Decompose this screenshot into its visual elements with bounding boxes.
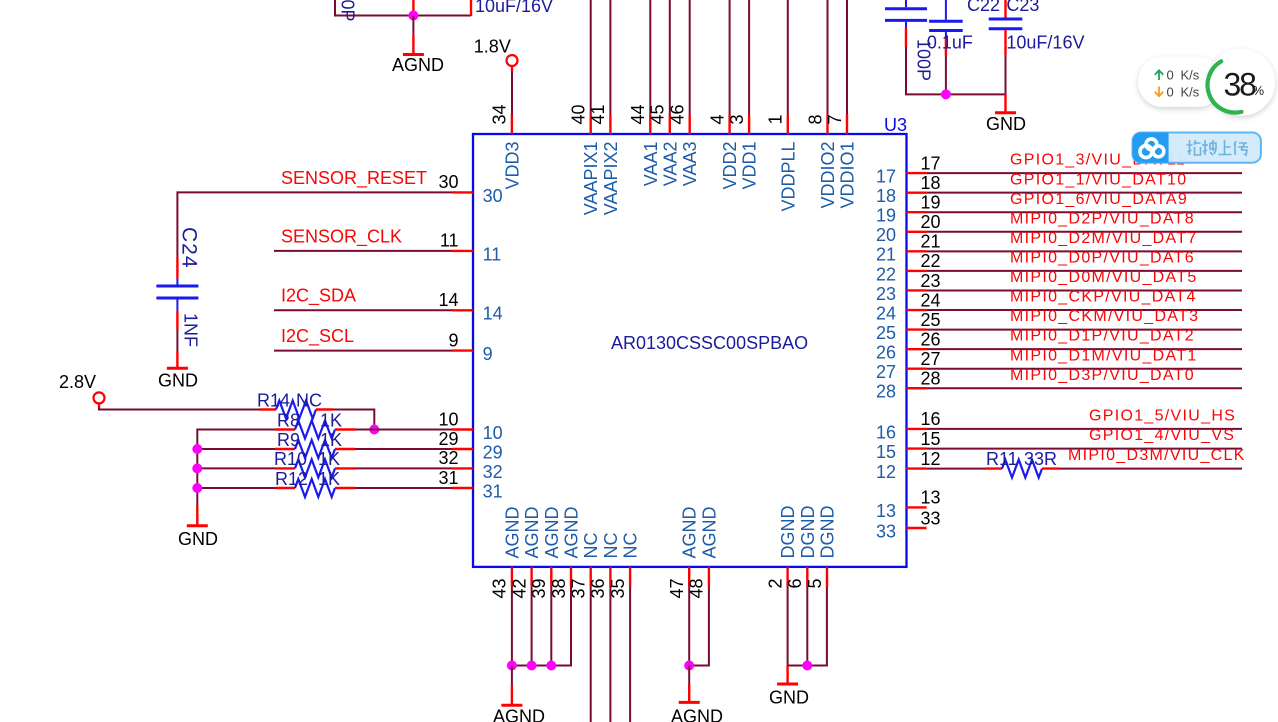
wire	[511, 66, 513, 73]
pin 30 (left)	[452, 191, 473, 193]
power port 1.8V	[474, 36, 511, 56]
svg-text:AGND: AGND	[699, 506, 719, 558]
wire	[531, 587, 533, 666]
svg-text:32: 32	[438, 448, 458, 468]
svg-text:30: 30	[483, 186, 503, 206]
svg-text:GPIO1_1/VIU_DAT10: GPIO1_1/VIU_DAT10	[1010, 171, 1187, 188]
pin 13 (right)	[907, 506, 927, 508]
net MIPI0_D0M/VIU_DAT5 wire	[927, 289, 1242, 291]
value 10uF/16V	[1006, 33, 1084, 53]
pin 25 (right)	[907, 328, 927, 330]
svg-text:1K: 1K	[318, 449, 340, 469]
pin 27 (right)	[907, 368, 927, 370]
svg-text:23: 23	[876, 284, 896, 304]
wire	[787, 0, 789, 115]
capacitor lead (top-left 10uF/16V)	[470, 0, 472, 16]
svg-text:AGND: AGND	[680, 506, 700, 558]
svg-text:DGND: DGND	[818, 506, 838, 559]
wire	[827, 0, 829, 115]
svg-text:0: 0	[1167, 68, 1174, 83]
svg-text:32: 32	[483, 462, 503, 482]
svg-text:22: 22	[876, 264, 896, 284]
svg-text:%: %	[1253, 83, 1265, 98]
svg-text:VAA3: VAA3	[680, 142, 700, 187]
svg-text:28: 28	[921, 369, 941, 389]
svg-text:AR0130CSSC00SPBAO: AR0130CSSC00SPBAO	[611, 333, 808, 353]
svg-text:41: 41	[588, 104, 608, 124]
wire	[512, 587, 571, 666]
svg-text:GND: GND	[178, 529, 218, 549]
wire	[98, 403, 100, 408]
net MIPI0_D0P/VIU_DAT6 wire	[927, 270, 1242, 272]
designator U3	[884, 115, 907, 135]
svg-text:45: 45	[648, 104, 668, 124]
svg-text:31: 31	[438, 468, 458, 488]
net MIPI0_CKM/VIU_DAT3 wire	[927, 329, 1242, 331]
capacitor lead (top-left 100P)	[412, 0, 414, 16]
pin 3 VDD1 (top)	[748, 115, 750, 135]
svg-text:VDDPLL: VDDPLL	[778, 142, 798, 212]
wire	[927, 468, 985, 470]
wire	[511, 666, 513, 686]
svg-text:34: 34	[490, 104, 510, 124]
svg-text:GND: GND	[769, 688, 809, 708]
svg-text:29: 29	[483, 442, 503, 462]
wire	[197, 448, 275, 450]
svg-text:NC: NC	[601, 533, 621, 559]
svg-text:18: 18	[921, 173, 941, 193]
wire	[649, 0, 651, 115]
svg-text:1K: 1K	[320, 410, 342, 430]
pin 5 DGND (bottom)	[826, 567, 828, 587]
svg-text:4: 4	[707, 114, 727, 124]
wire	[197, 487, 275, 489]
ground AGND (bottom-middle)	[688, 685, 690, 702]
pin 40 VAAPIX1 (top)	[590, 115, 592, 135]
junction	[802, 661, 812, 671]
svg-text:MIPI0_D2P/VIU_DAT8: MIPI0_D2P/VIU_DAT8	[1010, 210, 1195, 227]
resistor R12 1K	[275, 487, 295, 489]
svg-text:9: 9	[483, 344, 493, 364]
svg-text:14: 14	[438, 290, 458, 310]
svg-text:33: 33	[876, 521, 896, 541]
resistor R10 1K	[275, 467, 295, 469]
svg-text:MIPI0_CKP/VIU_DAT4: MIPI0_CKP/VIU_DAT4	[1010, 289, 1197, 306]
overlay speed pill	[1138, 57, 1223, 108]
wire	[590, 587, 592, 722]
net GPIO1_4/VIU_VS wire	[927, 448, 1242, 450]
wire	[355, 487, 452, 489]
svg-text:21: 21	[921, 232, 941, 252]
wire	[688, 666, 690, 686]
net label MIPI0_D2M/VIU_DAT7	[1010, 230, 1198, 247]
pin 2 DGND (bottom)	[786, 567, 788, 587]
junction	[527, 661, 537, 671]
pin 41 VAAPIX2 (top)	[609, 115, 611, 135]
svg-text:AGND: AGND	[392, 55, 444, 75]
wire	[1059, 468, 1242, 470]
svg-text:23: 23	[921, 271, 941, 291]
svg-text:38: 38	[1224, 66, 1257, 102]
svg-text:AGND: AGND	[502, 506, 522, 558]
pin 28 (right)	[907, 387, 927, 389]
svg-text:21: 21	[876, 245, 896, 265]
svg-text:33: 33	[921, 508, 941, 528]
svg-text:25: 25	[921, 310, 941, 330]
ground GND (under C24)	[176, 352, 178, 368]
net label SENSOR_CLK	[281, 226, 402, 247]
svg-text:C22: C22	[967, 0, 1000, 15]
svg-text:I2C_SCL: I2C_SCL	[281, 326, 354, 347]
wire	[197, 467, 275, 469]
svg-text:1NF: 1NF	[181, 313, 201, 347]
wire	[729, 0, 731, 115]
ground GND (left bus)	[196, 506, 198, 525]
pin 14 (left)	[452, 309, 473, 311]
pin 31 (left)	[452, 487, 473, 489]
pin 16 (right)	[907, 428, 927, 430]
junction	[192, 463, 202, 473]
ground GND (top-right)	[1004, 94, 1006, 111]
svg-text:GND: GND	[158, 370, 198, 390]
svg-text:11: 11	[440, 231, 459, 251]
svg-text:8: 8	[805, 114, 825, 124]
svg-text:MIPI0_D0M/VIU_DAT5: MIPI0_D0M/VIU_DAT5	[1010, 269, 1198, 286]
net label MIPI0_CKP/VIU_DAT4	[1010, 289, 1197, 306]
svg-text:AGND: AGND	[542, 506, 562, 558]
svg-text:16: 16	[921, 409, 941, 429]
svg-text:VAA1: VAA1	[641, 142, 661, 187]
svg-text:U3: U3	[884, 115, 907, 135]
svg-text:10: 10	[438, 409, 458, 429]
pin 6 DGND (bottom)	[806, 567, 808, 587]
wire	[688, 587, 690, 666]
svg-text:13: 13	[921, 488, 941, 508]
svg-text:27: 27	[876, 362, 896, 382]
svg-text:VDD3: VDD3	[502, 142, 522, 190]
wire	[629, 587, 631, 722]
svg-text:VDDIO1: VDDIO1	[838, 142, 858, 209]
svg-text:C23: C23	[1006, 0, 1039, 15]
wire	[846, 0, 848, 115]
ground GND (bottom)	[786, 666, 788, 684]
wire	[355, 467, 452, 469]
wire	[197, 429, 275, 431]
pin 4 VDD2 (top)	[728, 115, 730, 135]
svg-text:VAAPIX2: VAAPIX2	[601, 142, 621, 216]
svg-text:VAA2: VAA2	[660, 142, 680, 187]
svg-text:2.8V: 2.8V	[59, 372, 96, 392]
wire	[334, 15, 471, 17]
svg-text:17: 17	[921, 153, 941, 173]
svg-text:20: 20	[876, 225, 896, 245]
svg-text:13: 13	[876, 501, 896, 521]
svg-text:40: 40	[569, 104, 589, 124]
wire	[511, 587, 513, 666]
svg-text:R12: R12	[275, 469, 308, 489]
net GPIO1_3/VIU_DAT11 wire	[927, 172, 1242, 174]
pin 47 AGND (bottom)	[688, 567, 690, 587]
svg-text:R8: R8	[277, 410, 300, 430]
svg-text:GPIO1_6/VIU_DATA9: GPIO1_6/VIU_DATA9	[1010, 191, 1188, 208]
svg-text:17: 17	[876, 167, 896, 187]
svg-text:46: 46	[668, 104, 688, 124]
pin 42 AGND (bottom)	[530, 567, 532, 587]
svg-text:MIPI0_CKM/VIU_DAT3: MIPI0_CKM/VIU_DAT3	[1010, 308, 1199, 325]
net MIPI0_D3P/VIU_DAT0 wire	[927, 387, 1242, 389]
value 10uF/16V (top-left)	[475, 0, 553, 16]
svg-text:10uF/16V: 10uF/16V	[1006, 33, 1084, 53]
pin 17 (right)	[907, 172, 927, 174]
resistor R11 33R	[985, 467, 1002, 469]
svg-text:GPIO1_5/VIU_HS: GPIO1_5/VIU_HS	[1089, 408, 1236, 425]
pin 38 AGND (bottom)	[570, 567, 572, 587]
pin 44 VAA1 (top)	[649, 115, 651, 135]
svg-text:26: 26	[921, 329, 941, 349]
wire	[333, 410, 374, 430]
wire	[669, 0, 671, 115]
svg-text:10uF/16V: 10uF/16V	[475, 0, 553, 16]
pin 48 AGND (bottom)	[708, 567, 710, 587]
svg-text:VDD2: VDD2	[720, 142, 740, 190]
pin 36 NC (bottom)	[609, 567, 611, 587]
resistor R9 1K	[275, 448, 295, 450]
svg-text:C24: C24	[178, 227, 201, 269]
svg-text:24: 24	[876, 303, 896, 323]
capacitor C22 0.1uF	[945, 0, 947, 20]
net MIPI0_D2M/VIU_DAT7 wire	[927, 250, 1242, 252]
svg-text:100P: 100P	[338, 0, 358, 22]
IC U3 AR0130CSSC00SPBAO body	[473, 134, 907, 567]
svg-text:9: 9	[448, 330, 458, 350]
pin 19 (right)	[907, 211, 927, 213]
svg-text:22: 22	[921, 251, 941, 271]
wire	[748, 0, 750, 115]
wire	[334, 0, 336, 16]
svg-text:R11: R11	[986, 449, 1018, 469]
svg-text:2: 2	[765, 579, 785, 589]
svg-text:1K: 1K	[318, 469, 340, 489]
net label MIPI0_D1M/VIU_DAT1	[1010, 347, 1198, 364]
value 0.1uF	[927, 33, 973, 53]
net label GPIO1_6/VIU_DATA9	[1010, 191, 1188, 208]
net label MIPI0_D2P/VIU_DAT8	[1010, 210, 1195, 227]
svg-text:VDD1: VDD1	[740, 142, 760, 190]
power port 2.8V	[59, 372, 96, 392]
svg-text:12: 12	[921, 449, 941, 469]
resistor R14 NC	[259, 408, 276, 410]
wire	[609, 0, 611, 115]
svg-text:25: 25	[876, 323, 896, 343]
net label I2C_SCL	[281, 326, 354, 347]
junction	[684, 661, 694, 671]
pin 20 (right)	[907, 231, 927, 233]
pin 46 VAA3 (top)	[689, 115, 691, 135]
wire	[355, 429, 452, 431]
net label I2C_SDA	[281, 286, 356, 307]
pin 29 (left)	[452, 448, 473, 450]
wire	[412, 16, 414, 36]
wire	[689, 587, 709, 666]
net I2C_SDA wire	[274, 309, 452, 311]
svg-text:16: 16	[876, 422, 896, 442]
net I2C_SCL wire	[274, 350, 452, 352]
wire	[806, 587, 808, 666]
svg-text:SENSOR_RESET: SENSOR_RESET	[281, 168, 427, 189]
svg-text:K/s: K/s	[1181, 68, 1200, 83]
svg-text:11: 11	[483, 244, 502, 264]
pin 8 VDDIO2 (top)	[826, 115, 828, 135]
svg-text:44: 44	[628, 104, 648, 124]
pin 1 VDDPLL (top)	[787, 115, 789, 135]
svg-text:NC: NC	[621, 533, 641, 559]
wire	[905, 93, 1006, 95]
svg-text:AGND: AGND	[671, 707, 723, 722]
net GPIO1_1/VIU_DAT10 wire	[927, 192, 1242, 194]
svg-text:R10: R10	[274, 449, 307, 469]
capacitor C21? 100P	[905, 0, 907, 7]
junction	[507, 661, 517, 671]
wire	[176, 330, 178, 352]
svg-text:GPIO1_4/VIU_VS: GPIO1_4/VIU_VS	[1089, 427, 1235, 444]
pin 7 VDDIO1 (top)	[846, 115, 848, 135]
svg-text:19: 19	[921, 193, 941, 213]
svg-text:24: 24	[921, 290, 941, 310]
net label MIPI0_D1P/VIU_DAT2	[1010, 328, 1195, 345]
net label GPIO1_1/VIU_DAT10	[1010, 171, 1187, 188]
svg-text:GND: GND	[986, 114, 1026, 134]
overlay progress circle 38%	[1208, 49, 1275, 116]
overlay upload button 拖拽上传	[1133, 133, 1261, 163]
svg-text:MIPI0_D3M/VIU_CLK: MIPI0_D3M/VIU_CLK	[1068, 447, 1246, 464]
ground bus wire	[196, 429, 198, 507]
net MIPI0_D1M/VIU_DAT1 wire	[927, 368, 1242, 370]
svg-text:R14: R14	[257, 390, 290, 410]
svg-text:47: 47	[667, 579, 687, 599]
net SENSOR_CLK wire	[274, 250, 452, 252]
net SENSOR_RESET wire	[176, 191, 178, 258]
value 1NF	[181, 313, 201, 347]
svg-text:AGND: AGND	[522, 506, 542, 558]
svg-text:27: 27	[921, 349, 941, 369]
pin 26 (right)	[907, 348, 927, 350]
svg-text:20: 20	[921, 212, 941, 232]
net MIPI0_CKP/VIU_DAT4 wire	[927, 309, 1242, 311]
pin 23 (right)	[907, 289, 927, 291]
svg-text:14: 14	[483, 304, 503, 324]
junction	[546, 661, 556, 671]
svg-text:AGND: AGND	[562, 506, 582, 558]
svg-text:NC: NC	[581, 533, 601, 559]
svg-text:MIPI0_D2M/VIU_DAT7: MIPI0_D2M/VIU_DAT7	[1010, 230, 1198, 247]
net MIPI0_D1P/VIU_DAT2 wire	[927, 348, 1242, 350]
net label GPIO1_3/VIU_DAT11	[1010, 152, 1186, 169]
svg-text:DGND: DGND	[778, 506, 798, 559]
svg-text:VDDIO2: VDDIO2	[818, 142, 838, 209]
svg-text:1: 1	[766, 114, 786, 124]
net label SENSOR_RESET	[281, 168, 427, 189]
capacitor C23 10uF/16V	[1004, 0, 1006, 19]
svg-text:10: 10	[483, 423, 503, 443]
wire	[689, 0, 691, 115]
svg-text:DGND: DGND	[798, 506, 818, 559]
svg-text:K/s: K/s	[1181, 85, 1200, 100]
pin 11 (left)	[452, 250, 473, 252]
svg-text:MIPI0_D1P/VIU_DAT2: MIPI0_D1P/VIU_DAT2	[1010, 328, 1195, 345]
designator C23	[1006, 0, 1039, 15]
ground AGND (top)	[412, 35, 414, 54]
svg-text:AGND: AGND	[493, 707, 545, 722]
svg-text:1K: 1K	[320, 430, 342, 450]
resistor R8 1K	[275, 428, 295, 430]
pin 34 VDD3 (top)	[511, 115, 513, 135]
net label MIPI0_D0P/VIU_DAT6	[1010, 250, 1195, 267]
wire	[550, 587, 552, 666]
pin 10 (left)	[452, 428, 473, 430]
pin 12 (right)	[907, 467, 927, 469]
svg-text:33R: 33R	[1024, 449, 1057, 469]
svg-text:31: 31	[483, 481, 503, 501]
pin 22 (right)	[907, 270, 927, 272]
net label MIPI0_D3M/VIU_CLK	[1068, 447, 1246, 464]
svg-text:43: 43	[490, 579, 510, 599]
svg-text:VAAPIX1: VAAPIX1	[581, 142, 601, 216]
junction	[192, 444, 202, 454]
svg-text:NC: NC	[296, 390, 322, 410]
svg-text:26: 26	[876, 343, 896, 363]
svg-text:12: 12	[876, 462, 896, 482]
junction	[941, 89, 951, 99]
net label MIPI0_CKM/VIU_DAT3	[1010, 308, 1199, 325]
designator C22	[967, 0, 1000, 15]
value 100P (partial)	[338, 0, 358, 22]
svg-text:MIPI0_D0P/VIU_DAT6: MIPI0_D0P/VIU_DAT6	[1010, 250, 1195, 267]
svg-text:19: 19	[876, 206, 896, 226]
part value AR0130CSSC00SPBAO	[611, 333, 808, 353]
svg-text:18: 18	[876, 186, 896, 206]
capacitor C24 1NF	[176, 258, 178, 279]
svg-text:MIPI0_D1M/VIU_DAT1: MIPI0_D1M/VIU_DAT1	[1010, 347, 1198, 364]
svg-text:MIPI0_D3P/VIU_DAT0: MIPI0_D3P/VIU_DAT0	[1010, 367, 1195, 384]
svg-text:30: 30	[438, 172, 458, 192]
wire	[788, 587, 827, 666]
net GPIO1_6/VIU_DATA9 wire	[927, 211, 1242, 213]
wire	[355, 448, 452, 450]
net label GPIO1_5/VIU_HS	[1089, 408, 1236, 425]
net label GPIO1_4/VIU_VS	[1089, 427, 1235, 444]
pin 43 AGND (bottom)	[511, 567, 513, 587]
pin 32 (left)	[452, 467, 473, 469]
net MIPI0_D2P/VIU_DAT8 wire	[927, 231, 1242, 233]
pin 21 (right)	[907, 250, 927, 252]
pin 39 AGND (bottom)	[550, 567, 552, 587]
net GPIO1_5/VIU_HS wire	[927, 428, 1242, 430]
ground AGND (bottom-left)	[511, 685, 513, 704]
pin 15 (right)	[907, 447, 927, 449]
wire	[609, 587, 611, 722]
net label MIPI0_D3P/VIU_DAT0	[1010, 367, 1195, 384]
svg-text:R9: R9	[277, 430, 300, 450]
pin 33 (right)	[907, 527, 927, 529]
svg-text:15: 15	[876, 442, 896, 462]
svg-text:0.1uF: 0.1uF	[927, 33, 973, 53]
svg-text:I2C_SDA: I2C_SDA	[281, 286, 356, 307]
svg-text:29: 29	[438, 429, 458, 449]
junction	[192, 483, 202, 493]
net label MIPI0_D0M/VIU_DAT5	[1010, 269, 1198, 286]
designator C24	[178, 227, 201, 269]
pin 24 (right)	[907, 309, 927, 311]
